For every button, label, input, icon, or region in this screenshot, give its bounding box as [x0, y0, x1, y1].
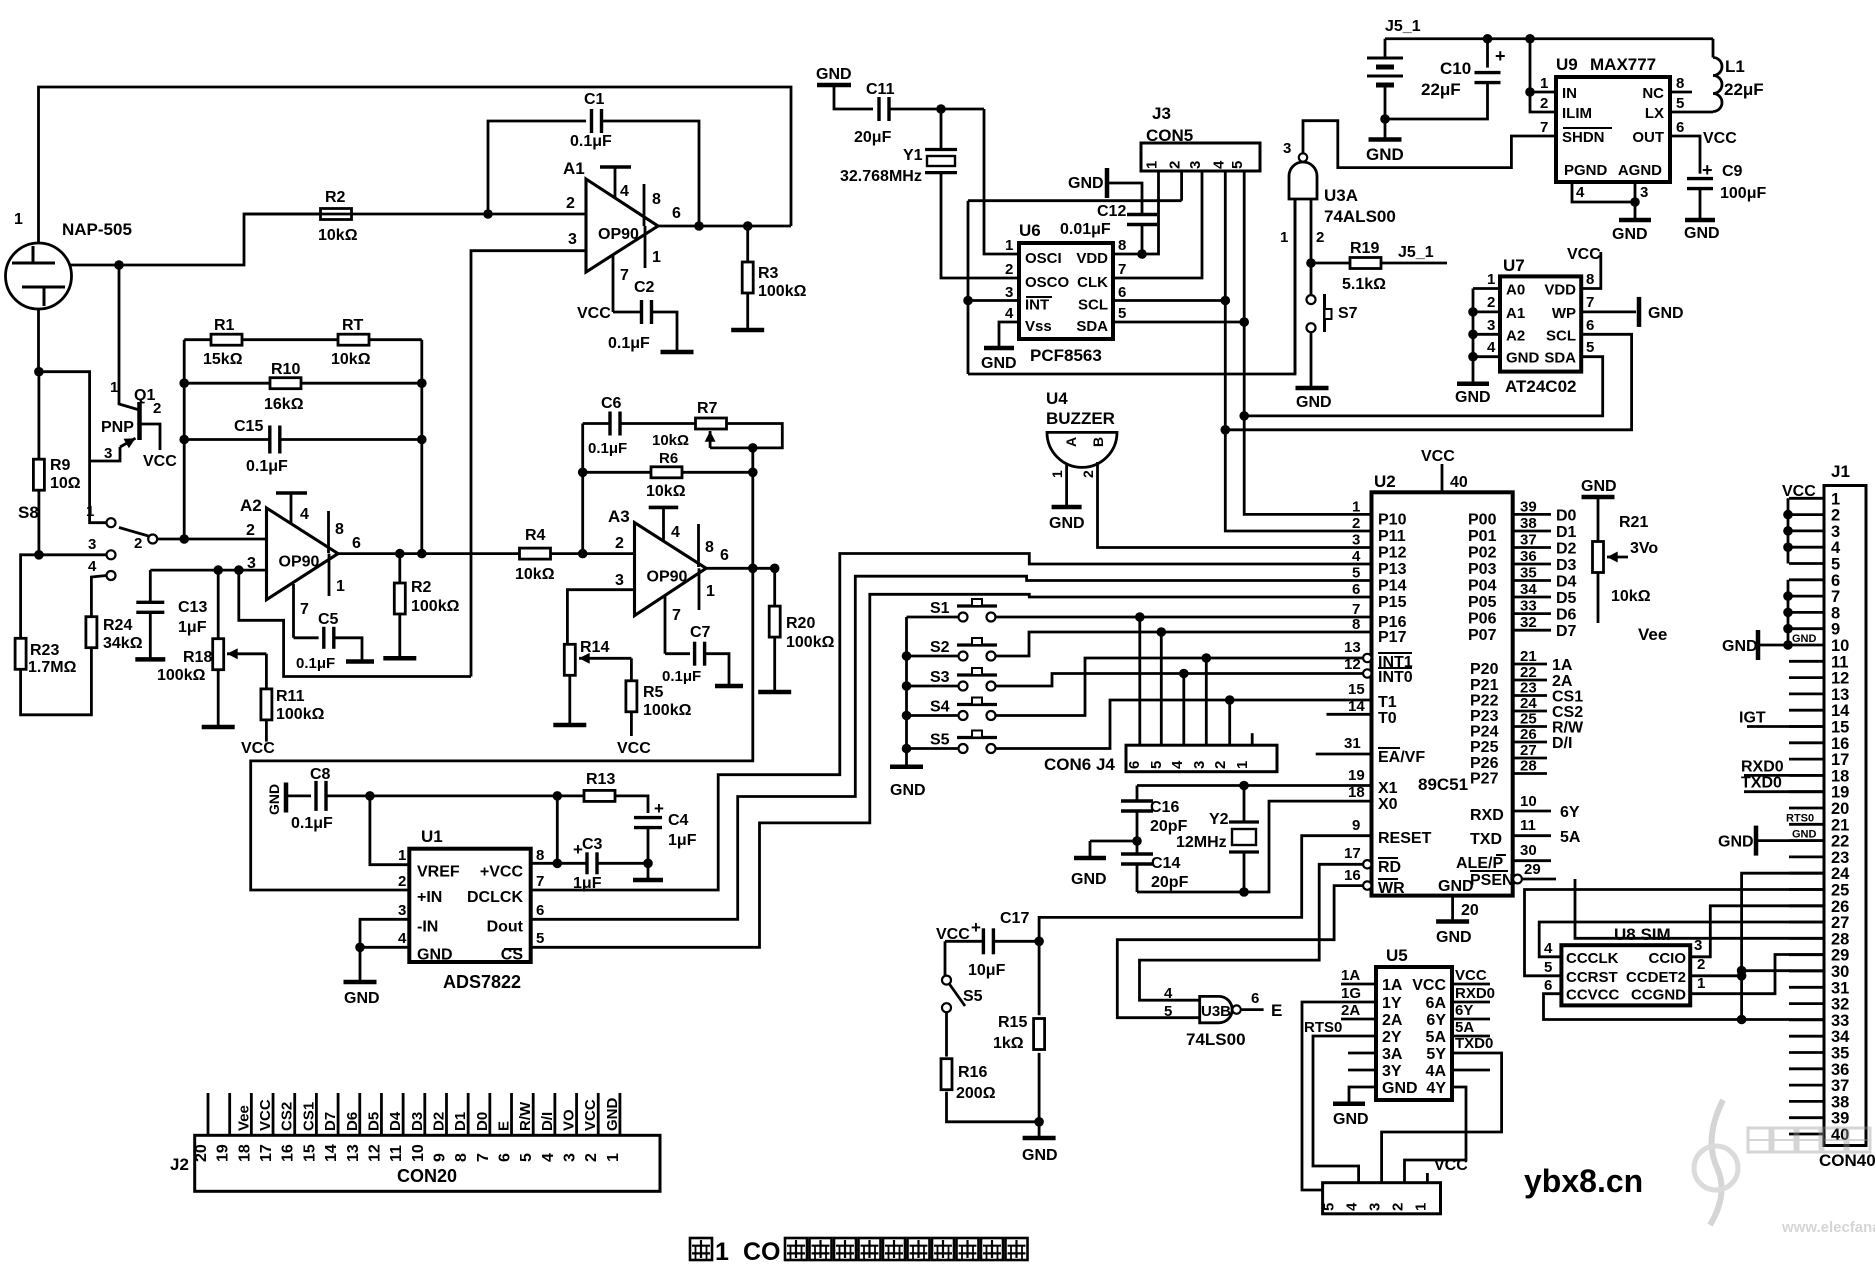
svg-text:P15: P15 — [1378, 594, 1407, 611]
wire Y1 to OSCO — [941, 173, 1019, 278]
ground at battery — [1369, 137, 1402, 142]
potentiometer R18 100k — [213, 639, 224, 670]
svg-text:15: 15 — [301, 1144, 318, 1162]
IC U2 pin 33 stub — [1513, 612, 1551, 615]
wire S4 to gnd bus — [907, 714, 959, 717]
svg-text:10: 10 — [1520, 793, 1537, 810]
svg-text:R2: R2 — [411, 579, 432, 596]
svg-text:INT0: INT0 — [1378, 669, 1413, 686]
wire CS to U2 P15 — [531, 594, 1372, 947]
wire R18 wiper to R11 — [265, 654, 268, 689]
wire C9 bottom — [1699, 189, 1702, 219]
svg-text:D4: D4 — [387, 1111, 404, 1131]
transistor Q1 emitter arrow — [120, 438, 136, 447]
svg-text:D0: D0 — [1556, 507, 1577, 524]
svg-text:U4: U4 — [1046, 389, 1068, 408]
connector J1 pin 19 lead — [1789, 790, 1824, 793]
wire battery bottom — [1384, 85, 1387, 140]
wire J1 pin19 TXD0 — [1744, 790, 1824, 793]
connector J1 pin 6 lead — [1789, 578, 1824, 581]
svg-text:P24: P24 — [1470, 724, 1499, 741]
svg-text:WR: WR — [1378, 880, 1405, 897]
svg-text:A2: A2 — [240, 496, 262, 515]
junction Y2 bottom — [1239, 887, 1249, 897]
svg-text:8: 8 — [536, 847, 544, 864]
connector J4 pin4 lead — [1205, 658, 1208, 745]
connector J4 pin5 lead — [1160, 632, 1163, 745]
svg-text:PGND: PGND — [1564, 162, 1608, 179]
svg-text:VCC: VCC — [577, 305, 611, 322]
svg-text:C3: C3 — [582, 836, 603, 853]
ground at C4 — [633, 878, 663, 883]
junction C16 C14 gnd — [1132, 836, 1142, 846]
svg-text:2: 2 — [1487, 294, 1495, 311]
wire C13 bottom — [149, 612, 152, 659]
junction R10 row right — [417, 378, 427, 388]
connector J1 pin 14 lead — [1789, 709, 1824, 712]
svg-text:X0: X0 — [1378, 796, 1398, 813]
svg-text:17: 17 — [258, 1144, 275, 1162]
svg-text:VCC: VCC — [241, 740, 275, 757]
svg-text:VCC: VCC — [1412, 977, 1446, 994]
svg-text:P10: P10 — [1378, 511, 1407, 528]
svg-text:4: 4 — [1487, 339, 1496, 356]
connector J2 pin 18 lead — [250, 1093, 253, 1135]
op-amp A2 pin7 stub — [292, 584, 295, 638]
svg-text:CON6 J4: CON6 J4 — [1044, 755, 1115, 774]
wire C6 row left — [583, 422, 610, 425]
svg-text:L1: L1 — [1725, 57, 1745, 76]
resistor R5 100k — [626, 681, 637, 712]
svg-text:37: 37 — [1831, 1077, 1849, 1095]
wire R6 to right bus — [682, 471, 753, 474]
svg-text:17: 17 — [1344, 845, 1361, 862]
svg-text:ybx8.cn: ybx8.cn — [1524, 1163, 1643, 1199]
svg-text:100kΩ: 100kΩ — [411, 598, 460, 615]
connector J2 CON20 body — [195, 1135, 660, 1191]
wire A1 output to R3 — [746, 226, 749, 262]
svg-text:+: + — [971, 918, 981, 937]
svg-text:35: 35 — [1520, 565, 1537, 582]
svg-text:0.1μF: 0.1μF — [608, 335, 650, 352]
ground at buzzer — [1052, 505, 1082, 510]
svg-text:GND: GND — [1684, 225, 1720, 242]
wire U6 INT to bus — [968, 299, 1019, 302]
svg-text:1A: 1A — [1341, 967, 1360, 984]
svg-text:+: + — [1702, 160, 1713, 180]
connector J1 pin 31 lead — [1789, 986, 1824, 989]
svg-text:8: 8 — [1352, 616, 1360, 633]
svg-text:P25: P25 — [1470, 739, 1499, 756]
ground at C11 — [817, 83, 851, 88]
svg-text:1: 1 — [1697, 975, 1705, 992]
svg-text:C7: C7 — [690, 624, 711, 641]
wire A1 pin7 to C2 — [613, 311, 642, 314]
capacitor C6 0.1uF — [608, 412, 611, 436]
svg-text:1: 1 — [1234, 761, 1251, 769]
wire R6 row — [583, 471, 652, 474]
connector J1 pin 17 lead — [1789, 758, 1824, 761]
svg-text:P14: P14 — [1378, 578, 1407, 595]
junction A3 pin2 / C6 branch — [578, 549, 588, 559]
svg-text:3Vo: 3Vo — [1630, 540, 1658, 557]
watermark elecfana — [1748, 1128, 1875, 1236]
junction CCDET2 / pin30 riser — [1737, 971, 1747, 981]
svg-text:4: 4 — [620, 183, 629, 200]
svg-text:22μF: 22μF — [1724, 80, 1764, 99]
connector J2 pin 14 lead — [337, 1093, 340, 1135]
svg-text:7: 7 — [1586, 294, 1594, 311]
connector J1 pin 4 lead — [1789, 546, 1824, 549]
junction CCVCC line / pin30 riser — [1737, 1015, 1747, 1025]
svg-text:EA/VF: EA/VF — [1378, 749, 1425, 766]
wire S4 to U2 INT1 — [996, 658, 1364, 716]
junction J3 pin4 / SCL long rail — [1221, 425, 1231, 435]
wire A2 output row to A3 — [338, 552, 635, 555]
junction R7 loop / output bus — [748, 443, 758, 453]
connector J1 pin 39 lead — [1789, 1116, 1824, 1119]
crystal Y2 12MHz — [1229, 820, 1259, 823]
switch S7 actuator — [1323, 294, 1326, 332]
op-amp A2 OP90 — [267, 508, 339, 600]
junction gnd bus S3 — [902, 681, 912, 691]
svg-text:7: 7 — [1831, 588, 1840, 606]
svg-text:NC: NC — [1642, 85, 1664, 102]
svg-text:VDD: VDD — [1544, 282, 1576, 299]
wire X0 rail — [1137, 801, 1372, 892]
svg-text:20: 20 — [1831, 800, 1849, 818]
svg-text:12: 12 — [1344, 656, 1361, 673]
svg-text:RESET: RESET — [1378, 830, 1432, 847]
wire R16 bottom — [947, 1092, 1040, 1122]
svg-text:U3B: U3B — [1201, 1003, 1231, 1020]
svg-text:11: 11 — [1520, 817, 1536, 834]
wire A3 pin7 to C7 — [665, 652, 690, 655]
wire U7 VDD to VCC — [1581, 252, 1601, 289]
svg-text:28: 28 — [1520, 758, 1537, 775]
wire U8 CCIO to J1 pin26 — [1690, 906, 1824, 957]
IC U5 pin lead 2A — [1341, 1018, 1376, 1021]
wire node to S8 pin1 — [39, 372, 106, 523]
svg-text:R1: R1 — [214, 317, 235, 334]
ground at S7 — [1296, 386, 1329, 391]
svg-text:3: 3 — [1187, 161, 1204, 169]
svg-text:GND: GND — [1438, 878, 1474, 895]
svg-text:AT24C02: AT24C02 — [1505, 377, 1577, 396]
svg-text:3: 3 — [1367, 1203, 1384, 1211]
IC U2 pin10 stub — [1513, 810, 1551, 813]
wire U9 pin1 — [1530, 91, 1556, 94]
wire C10 bottom — [1385, 83, 1488, 119]
svg-text:GND: GND — [1366, 145, 1404, 164]
svg-text:1A: 1A — [1552, 657, 1573, 674]
svg-text:P27: P27 — [1470, 771, 1499, 788]
svg-text:GND: GND — [266, 784, 282, 815]
svg-text:1: 1 — [1412, 1203, 1429, 1211]
wire A2 output to R2b — [398, 554, 401, 584]
svg-text:A1: A1 — [563, 159, 585, 178]
junction U7 A2 — [1468, 330, 1478, 340]
svg-text:1: 1 — [715, 1238, 729, 1266]
connector J2 pin 2 lead — [597, 1093, 600, 1135]
svg-text:RD: RD — [1378, 859, 1401, 876]
wire between R1 and RT — [242, 338, 338, 341]
svg-text:23: 23 — [1831, 849, 1849, 867]
wire U1 gnd — [359, 947, 362, 982]
connector J2 pin 8 lead — [467, 1093, 470, 1135]
svg-text:D5: D5 — [1556, 590, 1577, 607]
svg-text:3Y: 3Y — [1382, 1063, 1402, 1080]
svg-text:0.1μF: 0.1μF — [246, 458, 288, 475]
svg-text:1: 1 — [605, 1153, 622, 1162]
wire U7 SDA long rail — [1244, 357, 1603, 416]
svg-text:GND: GND — [604, 1098, 621, 1132]
wire R21 bottom — [1597, 572, 1600, 623]
wire C16 top — [1136, 786, 1139, 802]
capacitor C5 0.1uF — [322, 627, 325, 649]
capacitor C14 20pF — [1121, 852, 1153, 855]
svg-text:36: 36 — [1831, 1061, 1849, 1079]
svg-text:1: 1 — [1487, 271, 1495, 288]
svg-text:31: 31 — [1344, 735, 1361, 752]
svg-text:6Y: 6Y — [1426, 1012, 1446, 1029]
IC U2 INT1 bubble — [1363, 654, 1371, 662]
capacitor C12 0.01uF — [1127, 213, 1157, 216]
junction J4 pin5 / S2 row — [1157, 627, 1167, 637]
svg-text:5: 5 — [1544, 959, 1552, 976]
svg-text:P11: P11 — [1378, 528, 1406, 545]
svg-text:1: 1 — [1831, 490, 1840, 508]
svg-text:3: 3 — [398, 902, 406, 919]
switch S5b contact bottom — [942, 1003, 951, 1012]
svg-text:1: 1 — [652, 249, 661, 266]
wire INT bus loop — [967, 201, 970, 374]
connector J1 pin 16 lead — [1789, 741, 1824, 744]
svg-text:S5: S5 — [963, 988, 983, 1005]
ground at R14 — [553, 723, 586, 728]
wire gnd to J1 pin22 — [1758, 839, 1824, 842]
wire Q1 pin2 to VCC — [140, 424, 161, 450]
wire R2 to A1 pin2 — [244, 213, 586, 216]
op-amp A2 pin7 wire — [294, 636, 319, 639]
IC U2 pin 37 stub — [1513, 546, 1551, 549]
svg-text:J1: J1 — [1831, 462, 1850, 481]
svg-text:2: 2 — [1167, 161, 1184, 169]
svg-text:C11: C11 — [866, 81, 895, 98]
svg-text:CCVCC: CCVCC — [1566, 987, 1620, 1004]
svg-text:14: 14 — [1348, 698, 1365, 715]
svg-text:20: 20 — [193, 1144, 210, 1162]
wire R2b to ground — [398, 613, 401, 658]
junction C11 / Y1 — [936, 104, 946, 114]
wire R10 row — [184, 382, 270, 385]
ground at C2 — [661, 350, 694, 355]
IC U5 pin lead 4A — [1452, 1069, 1490, 1072]
svg-text:RXD: RXD — [1470, 807, 1504, 824]
IC U2 pin 27 stub — [1513, 757, 1547, 760]
svg-text:VCC: VCC — [143, 453, 177, 470]
svg-text:+: + — [654, 799, 664, 818]
svg-text:39: 39 — [1520, 498, 1537, 515]
wire pin30 riser — [1740, 971, 1743, 1020]
inductor L1 22uF — [1713, 58, 1722, 112]
svg-text:TXD0: TXD0 — [1741, 775, 1782, 792]
svg-text:T1: T1 — [1378, 694, 1397, 711]
svg-text:1μF: 1μF — [178, 619, 207, 636]
connector J1 pin 37 lead — [1789, 1084, 1824, 1087]
svg-text:10kΩ: 10kΩ — [515, 566, 555, 583]
potentiometer R21 10k — [1593, 542, 1604, 573]
svg-text:R24: R24 — [103, 617, 132, 634]
connector J4 pin6 lead — [1138, 617, 1141, 745]
IC U2 PSEN bubble — [1513, 875, 1522, 884]
IC U2 WR bubble — [1363, 881, 1371, 889]
svg-text:CS1: CS1 — [300, 1102, 317, 1131]
svg-text:R21: R21 — [1619, 514, 1648, 531]
resistor R1 15k — [211, 334, 242, 345]
junction U9 AGND — [1630, 197, 1640, 207]
svg-text:1kΩ: 1kΩ — [993, 1035, 1024, 1052]
wire U8 CCGND to J1 pin29 — [1690, 955, 1824, 994]
junction S8 pole / divider bus — [179, 534, 189, 544]
wire S5 to gnd bus — [907, 747, 959, 750]
op-amp A2 pin1 stub — [328, 554, 331, 596]
wire C1 feedback right — [602, 121, 700, 226]
switch S4 — [959, 711, 968, 720]
wire J1 pin18 RXD0 — [1744, 774, 1824, 777]
svg-text:CON5: CON5 — [1146, 126, 1193, 145]
wire R20 top — [773, 568, 776, 606]
ground at oscillator — [1074, 856, 1106, 861]
ground at R18 — [202, 725, 235, 730]
svg-text:1.7MΩ: 1.7MΩ — [28, 659, 77, 676]
svg-text:R16: R16 — [958, 1064, 987, 1081]
IC U1 CS overline — [504, 948, 522, 950]
svg-text:7: 7 — [536, 873, 544, 890]
svg-text:MAX777: MAX777 — [1590, 55, 1656, 74]
junction A2 output / R2b — [395, 549, 405, 559]
IC U9 MAX777 body — [1556, 77, 1670, 182]
wire R21 top — [1597, 497, 1600, 542]
svg-text:32: 32 — [1831, 996, 1849, 1014]
svg-text:4A: 4A — [1426, 1063, 1447, 1080]
junction U7 A1 — [1468, 307, 1478, 317]
svg-text:U8 SIM: U8 SIM — [1614, 925, 1671, 944]
svg-text:D2: D2 — [1556, 541, 1577, 558]
svg-text:34: 34 — [1520, 581, 1537, 598]
resistor R2 100k — [394, 583, 405, 614]
svg-text:VO: VO — [561, 1109, 578, 1131]
svg-text:GND: GND — [890, 782, 926, 799]
buzzer U4 body — [1047, 432, 1117, 467]
svg-text:WP: WP — [1552, 305, 1576, 322]
svg-text:CCDET2: CCDET2 — [1626, 969, 1686, 986]
svg-text:RXD0: RXD0 — [1455, 985, 1495, 1002]
svg-text:4: 4 — [88, 558, 97, 575]
svg-text:2: 2 — [566, 195, 575, 212]
connector J1 pin 11 lead — [1789, 660, 1824, 663]
wire R13 to C4 — [615, 796, 648, 813]
wire C16 to C14 — [1136, 811, 1139, 854]
wire buzzer pin1 to gnd — [1065, 463, 1068, 506]
wire J3 pin2 to gnd line — [1180, 171, 1183, 201]
svg-text:25: 25 — [1831, 882, 1849, 900]
svg-text:30: 30 — [1831, 963, 1849, 981]
svg-text:7: 7 — [475, 1153, 492, 1162]
svg-text:10kΩ: 10kΩ — [652, 432, 689, 449]
svg-text:SDA: SDA — [1544, 350, 1576, 367]
wire C2 to ground — [652, 312, 678, 352]
svg-text:AGND: AGND — [1618, 162, 1662, 179]
battery B1 plates — [1367, 57, 1403, 60]
svg-text:8: 8 — [335, 521, 344, 538]
svg-text:VCC: VCC — [1421, 448, 1455, 465]
svg-text:100kΩ: 100kΩ — [157, 667, 206, 684]
svg-text:R4: R4 — [525, 527, 546, 544]
svg-text:GND: GND — [1722, 638, 1758, 655]
wire C12 to VDD node — [1141, 225, 1144, 255]
svg-text:C16: C16 — [1150, 799, 1179, 816]
svg-text:C2: C2 — [634, 279, 655, 296]
svg-text:R10: R10 — [271, 361, 300, 378]
connector J2 pin 1 lead — [619, 1093, 622, 1135]
connector J4 pin2 lead — [1228, 700, 1231, 745]
svg-text:CCRST: CCRST — [1566, 969, 1618, 986]
svg-text:+VCC: +VCC — [480, 864, 524, 881]
svg-text:8: 8 — [1118, 237, 1126, 254]
wire U9 pin1 pin2 feed — [1530, 39, 1556, 112]
wire L1 top — [1712, 39, 1715, 58]
svg-text:3: 3 — [1191, 761, 1208, 769]
svg-text:BUZZER: BUZZER — [1046, 409, 1115, 428]
op-amp A1 pin7 stub — [612, 254, 615, 312]
svg-text:100μF: 100μF — [1720, 185, 1766, 202]
ground at U9 AGND — [1619, 218, 1651, 223]
resistor R4 10k — [520, 548, 551, 559]
wire OSCI riser — [984, 109, 1019, 254]
wire Y2 bottom lead — [1243, 852, 1246, 892]
svg-text:C6: C6 — [601, 395, 622, 412]
wire loop top — [968, 199, 1182, 202]
svg-text:PCF8563: PCF8563 — [1030, 346, 1102, 365]
wire wrap from A2 pin3 to A1 pin3 net — [239, 570, 471, 676]
IC U7 AT24C02 body — [1500, 276, 1581, 371]
svg-text:OP90: OP90 — [279, 554, 320, 571]
IC U2 pin30 stub — [1513, 859, 1551, 862]
wire node to R9 — [38, 372, 41, 459]
connector J1 pin 32 lead — [1789, 1002, 1824, 1005]
IC U9 NC stub — [1670, 91, 1692, 94]
switch S2 — [959, 652, 968, 661]
IC U5 pin lead 5A — [1452, 1035, 1490, 1038]
resistor R13 — [584, 790, 615, 801]
connector J1 pin 22 lead — [1789, 839, 1824, 842]
svg-text:6: 6 — [1251, 990, 1259, 1007]
svg-text:100kΩ: 100kΩ — [643, 702, 692, 719]
svg-text:12MHz: 12MHz — [1176, 834, 1227, 851]
svg-text:P26: P26 — [1470, 755, 1499, 772]
svg-text:VCC: VCC — [1455, 967, 1487, 984]
wire J3 pin4 to U2 P11 — [1225, 171, 1371, 531]
svg-text:PNP: PNP — [101, 419, 134, 436]
svg-text:VCC: VCC — [1567, 246, 1601, 263]
svg-text:D7: D7 — [1556, 623, 1577, 640]
connector J1 pin 33 lead — [1789, 1019, 1824, 1022]
svg-text:5A: 5A — [1426, 1029, 1447, 1046]
capacitor C16 20pF — [1121, 799, 1153, 802]
resistor R6 10k — [651, 467, 682, 478]
svg-text:5: 5 — [1321, 1203, 1338, 1211]
